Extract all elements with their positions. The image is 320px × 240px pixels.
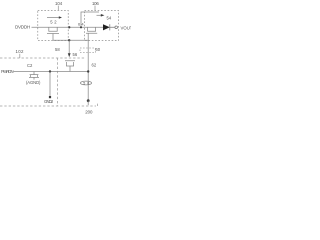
- label C2: [27, 63, 33, 68]
- terminal dot F: [87, 99, 90, 102]
- svg-text:62: 62: [92, 63, 97, 68]
- wire cap2 gate down: [87, 33, 89, 100]
- wire left drop: [49, 72, 51, 97]
- svg-text:54: 54: [107, 16, 112, 21]
- svg-text:C2: C2: [27, 63, 33, 68]
- label GND2: [44, 99, 54, 104]
- label 52: [50, 20, 57, 25]
- svg-text:60: 60: [95, 47, 100, 52]
- label 102: [16, 49, 25, 54]
- wire bottom rail: [14, 71, 89, 73]
- label 54: [107, 16, 112, 21]
- svg-text:64: 64: [78, 21, 84, 26]
- box 106 dashed: [85, 11, 119, 41]
- wire leader 102: [19, 54, 21, 58]
- diode D1: [103, 24, 110, 30]
- wire stub to boundary: [87, 101, 89, 106]
- label 62: [92, 63, 97, 68]
- svg-text:106: 106: [92, 1, 99, 6]
- svg-text:DVDDH: DVDDH: [15, 24, 30, 29]
- label PWRDN: [1, 69, 14, 74]
- wire top rail: [32, 26, 104, 28]
- arrow annotation I1: [47, 17, 59, 19]
- label 64: [78, 21, 84, 26]
- svg-text:200: 200: [85, 109, 93, 114]
- node junction dot C: [49, 70, 51, 72]
- node junction dot A: [68, 26, 70, 28]
- label 106: [92, 1, 99, 6]
- label 56: [73, 52, 78, 57]
- node junction dot G: [80, 26, 82, 28]
- boundary dashed vertical: [57, 58, 59, 106]
- label 58: [55, 47, 60, 52]
- boundary dashed horizontal: [0, 57, 86, 59]
- node junction dot B: [68, 39, 70, 41]
- svg-text:104: 104: [55, 1, 63, 6]
- box 104 dashed: [38, 11, 69, 41]
- capacitor C1: [47, 27, 59, 40]
- wire center drop with arrow: [68, 40, 70, 53]
- capacitor C3: [65, 61, 75, 72]
- terminal square E: [49, 96, 51, 98]
- label AGND: [26, 80, 41, 85]
- capacitor C2: [86, 27, 97, 33]
- wire gate bus: [53, 39, 88, 41]
- node DVDDH label: [15, 24, 30, 29]
- wire bypass loop: [81, 12, 99, 27]
- label 60: [95, 47, 100, 52]
- pad ellipse: [80, 81, 91, 85]
- svg-text:102: 102: [16, 49, 25, 54]
- svg-text:(AGND): (AGND): [26, 80, 41, 85]
- svg-text:VOUT: VOUT: [121, 25, 132, 30]
- node junction dot D: [87, 70, 89, 72]
- svg-text:56: 56: [73, 52, 78, 57]
- svg-text:58: 58: [55, 47, 60, 52]
- wire leader 106: [94, 6, 96, 10]
- terminal VOUT: [115, 26, 118, 29]
- svg-text:PWRDN: PWRDN: [1, 69, 14, 74]
- svg-text:GND2: GND2: [44, 99, 54, 104]
- boundary dashed bottom: [0, 102, 97, 106]
- label 200: [85, 109, 93, 114]
- wire leader 104: [57, 6, 59, 10]
- arrow annotation I2: [97, 14, 102, 16]
- box 60 dashed: [80, 48, 96, 53]
- label 104: [55, 1, 63, 6]
- svg-text:52: 52: [50, 20, 57, 25]
- capacitor C4: [29, 72, 39, 80]
